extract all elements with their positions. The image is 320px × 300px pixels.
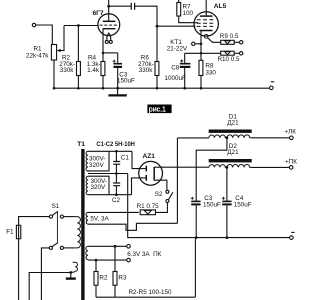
svg-text:150uF: 150uF [203, 202, 221, 209]
wire HV top lead [88, 150, 132, 152]
node R2 tap [95, 259, 98, 262]
6G7 anode plate bar [103, 20, 116, 22]
wire junction to AL5 grid [157, 25, 195, 27]
AZ1 filament bar [153, 167, 155, 181]
label minus [271, 81, 274, 83]
AL5 cathode bar [200, 30, 213, 32]
tube AZ1 envelope [139, 161, 163, 185]
T1 6.3V winding [86, 246, 88, 259]
resistor R2 bottom section [94, 272, 98, 286]
wire R8 bottom to rail [200, 76, 202, 89]
svg-text:330: 330 [205, 69, 216, 76]
svg-text:R1 0.75: R1 0.75 [137, 203, 160, 210]
label minus bottom [291, 231, 294, 233]
node C2 bottom [115, 193, 118, 196]
wire D1 to +LK terminal [252, 137, 290, 139]
wire S1 pole2 to primary tap [64, 247, 75, 249]
T1 primary winding lower [71, 262, 78, 272]
svg-text:R1: R1 [34, 46, 43, 53]
svg-text:1.4k: 1.4k [87, 67, 100, 74]
svg-text:5V, 3A: 5V, 3A [90, 216, 109, 223]
fuse F1 [16, 225, 20, 238]
wire C3 bottom lead [195, 205, 197, 237]
wire D2 to +PK terminal [252, 166, 290, 168]
svg-text:320V: 320V [91, 184, 107, 191]
wire C3 top lead [117, 53, 119, 63]
terminal 6.3V top [127, 245, 131, 249]
wire minus rail down to heater line [194, 239, 196, 297]
wire C3 bottom to rail [117, 68, 119, 88]
6G7 heater filament [107, 33, 111, 40]
switch S1 pole1 [49, 215, 52, 218]
wire B+ riser [176, 138, 178, 223]
capacitor C4 plus [222, 197, 225, 200]
svg-text:330k: 330k [60, 67, 75, 74]
svg-text:320V: 320V [89, 162, 105, 169]
potentiometer R1 [51, 45, 56, 61]
wire R2 bottom to rail [77, 76, 79, 89]
wire R7 bottom to AL5 screen grid [179, 16, 198, 23]
capacitor C3 plates [113, 63, 122, 65]
node rail R4 [102, 87, 105, 90]
AL5 grid dashes row2 [197, 22, 213, 24]
wire AZ1 filament top arm to B+ [154, 166, 209, 168]
node rail R2 [77, 87, 80, 90]
wire S2 to R1 [155, 203, 167, 213]
wire HV bottom lead [88, 194, 132, 196]
ground symbol bottom section [66, 277, 76, 279]
wire R3 lead [114, 246, 116, 271]
svg-text:1000uF: 1000uF [165, 75, 187, 82]
svg-text:100: 100 [183, 10, 194, 17]
node rail R6 [156, 87, 159, 90]
capacitor C4 plates [222, 200, 231, 202]
svg-text:+ЛК: +ЛК [285, 129, 297, 136]
wire common heater line [96, 296, 195, 298]
wire AL5 plate lead from top edge [205, 0, 207, 16]
AL5 grid dashes row3 [197, 25, 213, 27]
node rail R1 [53, 87, 56, 90]
wire R9 to terminal [234, 41, 239, 43]
wire wiper line to 6G7 grid [64, 25, 98, 27]
wire plate to coupling cap [109, 5, 132, 7]
resistor R7 [177, 3, 181, 17]
choke D2 core [209, 159, 252, 162]
wire R6 lead down [156, 26, 158, 61]
node rail C3 [116, 87, 119, 90]
wire R4 cathode tap to C3 [103, 52, 118, 54]
R1 wiper arrow [59, 26, 64, 51]
wire R7 top from edge [178, 0, 180, 3]
wire R6 bottom to rail [156, 76, 158, 89]
ground symbol top section [117, 88, 119, 94]
node cathode/C8 line [200, 52, 203, 55]
wire C8/R10 cathode line [185, 52, 221, 54]
wire R2 R3 bottoms to common line [95, 285, 97, 297]
output terminal R10 [240, 52, 243, 55]
AL5 bottom pin circle [204, 34, 208, 38]
node grid/R6 junction [156, 25, 159, 28]
wire R4 bottom to rail [102, 76, 104, 89]
wire D1 tap to C3 [196, 138, 227, 201]
capacitor C2 [115, 174, 117, 183]
svg-text:C2: C2 [112, 197, 121, 204]
node rail C8 [183, 87, 186, 90]
node primary ground junction [69, 271, 72, 274]
resistor R10 [221, 51, 235, 55]
wire C8 bottom to rail [184, 68, 186, 88]
6G7 cathode bar [103, 28, 116, 30]
svg-text:330k: 330k [139, 67, 154, 74]
wire F1 down to edge [18, 239, 20, 300]
wire HV bottom to AZ1 anode2 [132, 178, 142, 195]
wire D2 tap to C4 [226, 167, 228, 201]
T1 HV section2 label box [88, 176, 109, 195]
wire 5V winding top lead to R1 [88, 211, 139, 213]
wire coupling cap to AL5 grid junction [135, 6, 157, 26]
resistor R1 bottom section [140, 210, 155, 215]
T1 HV secondary winding section 2 [86, 176, 88, 194]
svg-text:6.3V 3A ПК: 6.3V 3A ПК [127, 251, 161, 258]
T1 5V winding [86, 212, 88, 224]
AL5 grid dashes row1 [197, 19, 213, 21]
svg-text:Д21: Д21 [227, 120, 239, 127]
resistor R4 [101, 62, 105, 76]
wire AZ1 filament bottom arm to S2 [154, 180, 167, 190]
wire KT1 to cathode lead [195, 43, 201, 45]
tube 6G7 envelope [98, 14, 120, 36]
output terminal R9 [240, 41, 243, 44]
AZ1 anode1 plate [145, 166, 147, 172]
terminal KT1 [192, 42, 195, 45]
svg-text:S2: S2 [155, 191, 163, 198]
svg-text:6Г7: 6Г7 [93, 10, 104, 17]
wire HV center tap [88, 173, 128, 175]
wire R2 lead [95, 260, 97, 271]
resistor R6 [155, 62, 159, 76]
svg-text:C1: C1 [121, 154, 130, 161]
switch S1 pole2 [49, 246, 52, 249]
svg-text:AL5: AL5 [214, 3, 227, 10]
choke D1 winding [209, 135, 252, 138]
node C4 on minus rail [226, 236, 229, 239]
wire HV top to AZ1 anode1 [132, 151, 141, 168]
wire 6.3V top lead [88, 245, 127, 247]
node plate/coupling junction [107, 5, 110, 8]
capacitor C3 bottom section plus [191, 197, 194, 200]
svg-text:150uF: 150uF [234, 202, 252, 209]
wire C8 top lead [184, 53, 186, 63]
node wiper/R2 junction [77, 24, 80, 27]
wire 6G7 cathode down to R4 [102, 29, 104, 62]
capacitor C8 plates [180, 63, 191, 65]
wire C4 bottom lead [226, 205, 228, 237]
node cathode/KT1 [200, 43, 203, 46]
svg-text:R10 0.5: R10 0.5 [218, 56, 241, 63]
terminal +LK [290, 136, 294, 140]
node C3 on minus rail [195, 236, 198, 239]
AL5 anode plate bar [200, 15, 213, 17]
wire R1 bottom to ground rail [53, 60, 55, 88]
svg-text:AZ1: AZ1 [143, 153, 156, 160]
6G7 heater pin circles [105, 40, 108, 43]
svg-text:C1-C2 5H-10H: C1-C2 5H-10H [96, 141, 135, 148]
svg-text:рис.1: рис.1 [149, 107, 166, 114]
wire primary bottom to ground [70, 273, 72, 278]
node D2 tap [226, 166, 229, 169]
wire S1 pole1 left to F1 [19, 217, 50, 226]
wire R10 to terminal [234, 52, 239, 54]
node rail R8 [200, 87, 203, 90]
wire 6.3V bottom lead [88, 259, 127, 261]
node R4/C3 tap [102, 52, 105, 55]
svg-text:150uF: 150uF [117, 78, 135, 85]
svg-text:R9 0.5: R9 0.5 [220, 33, 239, 40]
choke D2 winding [209, 165, 252, 168]
wire center tap down to minus rail [128, 174, 290, 238]
transformer T1 core [81, 149, 84, 300]
svg-text:F1: F1 [6, 229, 14, 236]
resistor R8 [199, 60, 203, 75]
coupling capacitor plates [131, 3, 134, 10]
capacitor C1 [115, 151, 117, 161]
wire S1 pole2 left down to edge [41, 248, 49, 300]
T1 HV secondary winding section 1 [86, 151, 88, 172]
svg-text:R3: R3 [118, 274, 127, 281]
node D1 tap [226, 136, 229, 139]
svg-text:T1: T1 [77, 141, 85, 148]
terminal 6.3V bottom [127, 258, 131, 262]
node R3 tap [114, 245, 117, 248]
T1 primary winding upper [75, 217, 81, 248]
capacitor C3 plus sign [113, 60, 116, 63]
resistor R9 [221, 40, 235, 44]
wire ground junction left and down to edge [29, 273, 71, 300]
S1 mechanical link [56, 212, 58, 243]
wire S1 pole1 to primary [64, 216, 75, 218]
capacitor C3 bottom section plates [191, 200, 200, 202]
switch S2 [166, 190, 169, 193]
choke D1 core [209, 130, 252, 133]
svg-text:C8: C8 [171, 65, 180, 72]
6G7 grid dashes [100, 24, 118, 26]
svg-text:Д21: Д21 [227, 149, 239, 156]
ground rail top section [54, 87, 269, 89]
input terminal [32, 23, 35, 26]
tube AL5 envelope [194, 12, 218, 36]
T1 HV section1 label box [88, 151, 109, 171]
svg-text:21-22V: 21-22V [167, 45, 188, 52]
svg-text:S1: S1 [52, 203, 60, 210]
wire AL5 cathode lead down [200, 31, 202, 61]
resistor R2 [77, 62, 81, 76]
node C1/C2 mid [115, 172, 118, 175]
wire R2 top lead [77, 26, 79, 62]
wire 6G7 plate lead from top edge [108, 0, 110, 21]
wire B+ to D1 [177, 137, 209, 139]
svg-text:+ПК: +ПК [285, 158, 297, 165]
wire pin to R9 [207, 38, 220, 43]
resistor R3 bottom section [113, 272, 117, 286]
AZ1 anode2 plate [145, 175, 147, 181]
figure label ris.1 [147, 105, 171, 114]
minus output terminal bottom [290, 236, 294, 240]
terminal +PK [289, 166, 293, 170]
node C1 top [115, 150, 118, 153]
wire input to R1 top [36, 25, 53, 45]
svg-text:R2-R5 100-150: R2-R5 100-150 [129, 289, 173, 296]
minus output terminal top section [270, 86, 274, 90]
svg-text:22k-47k: 22k-47k [26, 53, 49, 60]
5V label box bottom [88, 223, 177, 230]
capacitor C8 plus sign [180, 60, 183, 63]
svg-text:R2: R2 [99, 274, 108, 281]
